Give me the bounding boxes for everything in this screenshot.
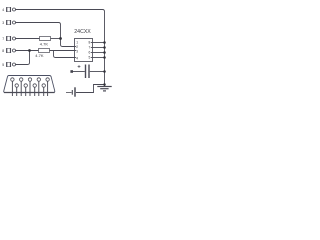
svg-text:7: 7 xyxy=(89,46,91,50)
svg-text:5: 5 xyxy=(2,63,4,67)
svg-text:6: 6 xyxy=(89,51,91,55)
svg-text:5: 5 xyxy=(89,56,91,60)
svg-text:8: 8 xyxy=(89,41,91,45)
svg-text:3: 3 xyxy=(76,49,78,53)
svg-text:2: 2 xyxy=(76,45,78,49)
svg-text:1: 1 xyxy=(76,40,78,44)
svg-text:4: 4 xyxy=(76,56,78,60)
svg-text:8: 8 xyxy=(2,49,4,53)
svg-text:4.7K: 4.7K xyxy=(35,53,44,58)
svg-text:7: 7 xyxy=(2,37,4,41)
svg-text:4.7K: 4.7K xyxy=(40,41,49,46)
svg-text:24CXX: 24CXX xyxy=(74,29,91,35)
svg-text:3: 3 xyxy=(2,21,4,25)
svg-text:4: 4 xyxy=(2,8,4,12)
